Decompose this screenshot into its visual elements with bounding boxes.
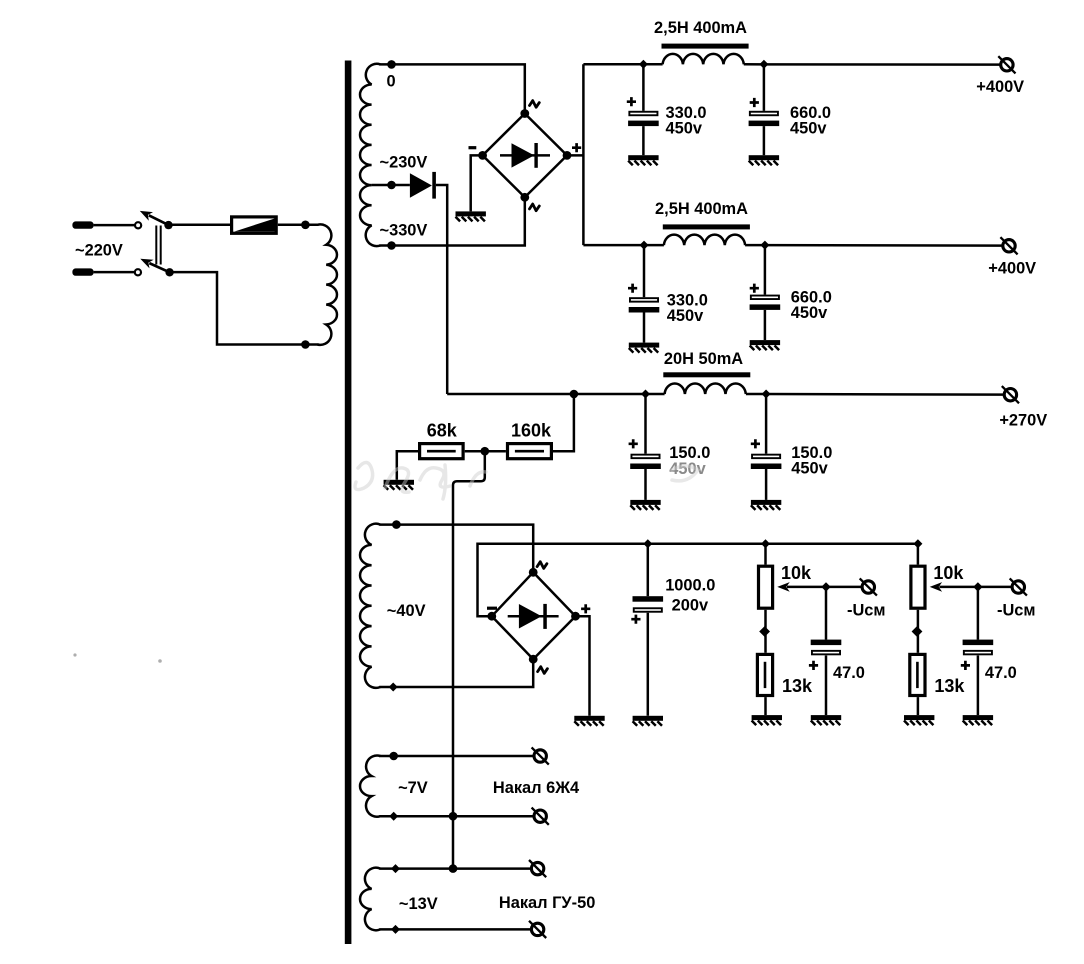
bridge VD2 ac mark bottom — [530, 204, 540, 211]
svg-text:68k: 68k — [427, 421, 458, 441]
junction node pot-13k 2 — [912, 626, 923, 637]
ground C7 ground — [633, 716, 663, 726]
ground bridge VD3 ground — [574, 716, 604, 726]
svg-text:~13V: ~13V — [399, 895, 438, 913]
resistor R1 68k body — [420, 444, 464, 459]
wire filter1 rail left — [583, 63, 662, 66]
ground R2 13k ground — [904, 715, 934, 725]
terminal terminal +400V b — [1000, 237, 1017, 254]
choke L2 winding — [664, 235, 745, 245]
junction bridge VD3 minus pin — [487, 612, 496, 621]
svg-text:47.0: 47.0 — [985, 664, 1017, 682]
capacitor C1 47.0 plates plates — [811, 640, 842, 646]
wire plug lower lead — [94, 271, 135, 274]
resistor R1 13k body — [757, 654, 772, 695]
junction filter1 output node — [759, 60, 768, 69]
bridge VD3 minus mark — [487, 607, 497, 610]
junction node pot 2 rail — [913, 539, 922, 548]
ground C1 ground — [628, 155, 658, 165]
capacitor C6 150.0 450v plates — [752, 455, 780, 459]
polarity plus C1 47 plus mark — [809, 661, 818, 670]
svg-text:160k: 160k — [511, 421, 552, 441]
svg-text:+400V: +400V — [988, 259, 1036, 277]
svg-text:450v: 450v — [791, 460, 828, 478]
transformer T1 heater winding ~7V — [360, 756, 380, 817]
svg-text:20H 50mA: 20H 50mA — [664, 350, 743, 368]
junction node pot-13k 1 — [759, 626, 770, 637]
resistor R2 13k body — [910, 654, 925, 695]
junction switch SA1 pivot upper — [164, 221, 172, 229]
polarity plus C1 plus mark — [627, 97, 636, 106]
junction node pot 1 rail — [761, 539, 770, 548]
svg-text:~220V: ~220V — [75, 242, 123, 260]
svg-text:47.0: 47.0 — [833, 664, 865, 682]
scan speck b — [158, 659, 162, 663]
bridge rectifier VD2 — [483, 114, 567, 198]
transformer T1 primary winding — [318, 224, 337, 344]
polarity plus C4 plus mark — [750, 284, 759, 293]
wire minus rail — [478, 544, 918, 617]
wire C7 bottom lead — [647, 613, 650, 716]
svg-text:13k: 13k — [782, 676, 813, 696]
watermark (faint) — [355, 462, 698, 499]
transformer T1 heater winding ~13V — [360, 868, 380, 931]
svg-text:450v: 450v — [790, 119, 827, 137]
terminal terminal -Ucm 1 — [860, 578, 877, 595]
junction bridge VD2 ac bottom pin — [520, 193, 529, 202]
capacitor C7 1000.0 200v plates — [633, 596, 664, 602]
wire C1 47 bottom lead — [825, 656, 828, 716]
wire C1 top lead — [642, 64, 645, 111]
wire C 2 47 top lead — [977, 587, 980, 640]
junction node winding 330 — [387, 241, 396, 250]
switch SA1 mechanical link — [156, 226, 160, 265]
wire C6 bottom lead — [765, 469, 768, 500]
svg-text:450v: 450v — [791, 304, 828, 322]
svg-text:450v: 450v — [667, 307, 704, 325]
wire C5 bottom lead — [644, 469, 647, 500]
wire C4 bottom lead — [764, 310, 767, 340]
wire R1 13k ground lead — [764, 697, 767, 715]
capacitor C3 330.0 450v plates — [630, 298, 658, 302]
ground C2 47 ground — [963, 715, 993, 725]
wire bridge minus to ground — [471, 155, 483, 211]
diode VD1 — [410, 173, 432, 197]
wire C5 top lead — [644, 394, 647, 454]
svg-text:450v: 450v — [666, 119, 703, 137]
svg-text:0: 0 — [387, 73, 396, 91]
wire 40V bottom wire — [379, 659, 533, 687]
svg-text:Накал ГУ-50: Накал ГУ-50 — [499, 894, 595, 912]
wire pot 2 bottom lead — [917, 610, 920, 653]
junction node 13V top — [391, 864, 400, 873]
capacitor C2 47.0 plates plates — [963, 640, 994, 646]
junction switch SA1 pivot lower — [165, 268, 173, 276]
terminal terminal heater 6Zh4 a — [532, 747, 549, 764]
wire net 330 bottom — [379, 197, 525, 245]
wire 7V top wire — [379, 755, 534, 758]
junction node C7 — [643, 539, 652, 548]
polarity plus C3 plus mark — [628, 284, 637, 293]
fuse FU1 — [232, 217, 277, 233]
polarity plus bridge VD2 plus mark — [572, 143, 581, 152]
ground bridge VD2 ground — [456, 211, 486, 221]
wire pot 1 bottom lead — [764, 610, 767, 653]
wire primary bottom return — [170, 272, 319, 344]
terminal terminal heater 6Zh4 b — [532, 808, 549, 825]
junction bridge VD3 ac bottom pin — [529, 655, 538, 664]
junction node 40V top — [392, 520, 401, 529]
wire filter3 rail right — [746, 393, 1005, 396]
junction node primary bottom — [301, 340, 310, 349]
svg-text:~40V: ~40V — [387, 602, 426, 620]
plug prong upper — [72, 221, 93, 228]
junction filter3 input node — [641, 390, 650, 399]
capacitor C4 660.0 450v plates — [751, 296, 779, 300]
wire plus rail riser — [582, 64, 585, 245]
wire diode output down — [436, 185, 447, 394]
junction node tap 230 — [387, 181, 396, 190]
wire C3 bottom lead — [643, 313, 646, 343]
wire R1 to R2 — [465, 450, 506, 453]
bridge VD2 minus mark — [469, 146, 477, 149]
wire C2 47 bottom lead — [977, 656, 980, 716]
junction bridge VD3 ac top pin — [529, 568, 538, 577]
terminal terminal -Ucm 2 — [1010, 578, 1027, 595]
junction bridge VD3 plus pin — [571, 612, 580, 621]
wire bridge VD3 plus to ground — [576, 616, 590, 716]
wire C6 top lead — [765, 394, 768, 454]
transformer T1 HV secondary winding 0-230-330 — [360, 64, 380, 246]
terminal terminal +400V a — [998, 56, 1015, 73]
choke L1 winding — [663, 54, 744, 64]
ground C5 ground — [630, 500, 660, 510]
junction node winding 0 — [387, 60, 396, 69]
wire 13V top wire — [379, 867, 531, 870]
junction filter2 input node — [640, 241, 649, 250]
wire C7 top lead — [647, 544, 650, 597]
ground C6 ground — [751, 500, 781, 510]
wire 13V bottom wire — [379, 928, 531, 931]
svg-text:200v: 200v — [672, 596, 709, 614]
wire R2 13k ground lead — [917, 697, 920, 715]
bridge rectifier VD3 — [492, 572, 576, 659]
transformer T1 core — [345, 61, 352, 945]
choke L3 winding — [665, 384, 746, 394]
junction node heater common b — [449, 864, 458, 873]
potentiometer RP2 wiper — [939, 586, 1011, 589]
junction node 160k riser — [570, 390, 579, 399]
wire C2 top lead — [763, 64, 766, 111]
polarity plus bridge VD3 plus mark — [581, 604, 590, 613]
switch SA1 contact lower — [135, 269, 141, 275]
wire C3 top lead — [643, 245, 646, 297]
wire bias tap to heater common — [453, 451, 485, 868]
wire C 1 47 top lead — [825, 587, 828, 640]
ground C2 ground — [749, 155, 779, 165]
capacitor C2 660.0 450v plates — [750, 112, 778, 116]
svg-text:-Uсм: -Uсм — [997, 601, 1036, 619]
polarity plus C2 47 plus mark — [961, 661, 970, 670]
svg-text:10k: 10k — [781, 563, 812, 583]
terminal terminal heater GU-50 b — [529, 921, 546, 938]
junction node wiper cap 2 — [973, 582, 982, 591]
junction node heater common a — [449, 812, 458, 821]
junction bridge VD2 plus pin — [563, 151, 572, 160]
polarity plus C2 plus mark — [750, 98, 759, 107]
wire tap 230 to diode — [372, 184, 410, 187]
svg-text:1000.0: 1000.0 — [665, 576, 715, 594]
ground C3 ground — [629, 343, 659, 353]
choke L2 core bar — [663, 224, 750, 229]
junction node primary top — [301, 221, 310, 230]
wire filter2 rail right — [745, 244, 1003, 247]
potentiometer RP2 body — [911, 566, 925, 608]
switch SA1 lever upper — [149, 215, 169, 225]
svg-text:+270V: +270V — [999, 411, 1047, 429]
svg-text:~330V: ~330V — [380, 221, 428, 239]
junction node 7V bottom — [389, 812, 398, 821]
junction bridge VD2 minus pin — [478, 151, 487, 160]
junction node wiper cap 1 — [821, 582, 830, 591]
wire fuse to primary — [278, 224, 319, 227]
choke L1 core bar — [662, 44, 749, 49]
polarity plus C6 plus mark — [751, 439, 760, 448]
wire pot 1 top lead — [764, 544, 767, 565]
wire net 0 top rail — [379, 64, 525, 113]
polarity plus C7 plus mark — [631, 615, 640, 624]
wire switch to fuse — [169, 224, 231, 227]
transformer T1 bias winding ~40V — [360, 524, 380, 688]
wire C1 bottom lead — [642, 126, 645, 155]
junction filter1 input node — [639, 60, 648, 69]
terminal terminal +270V — [1002, 386, 1019, 403]
ground C1 47 ground — [811, 715, 841, 725]
svg-text:-Uсм: -Uсм — [847, 601, 886, 619]
bridge VD2 ac mark top — [530, 101, 540, 108]
wire feed 270 rail — [447, 393, 664, 396]
ground R1 13k ground — [752, 715, 782, 725]
capacitor C5 150.0 450v plates — [631, 455, 659, 459]
wire pot 2 top lead — [917, 544, 920, 565]
terminal terminal heater GU-50 a — [529, 860, 546, 877]
bridge VD3 ac mark bottom — [538, 667, 548, 674]
choke L3 core bar — [663, 372, 750, 377]
svg-text:13k: 13k — [934, 676, 965, 696]
wire bridge plus output — [567, 154, 583, 157]
wire plug upper lead — [94, 224, 135, 227]
svg-text:Накал 6Ж4: Накал 6Ж4 — [493, 779, 580, 797]
wire 40V top wire — [379, 525, 533, 573]
junction filter3 output node — [762, 390, 771, 399]
svg-text:~7V: ~7V — [398, 779, 428, 797]
potentiometer RP1 body — [759, 566, 773, 608]
svg-text:10k: 10k — [933, 563, 964, 583]
wire R1 left lead — [397, 451, 418, 480]
wire filter1 rail right — [744, 63, 1001, 66]
junction node 40V bottom — [389, 683, 398, 692]
junction node 13V bottom — [391, 925, 400, 934]
junction node bias divider — [481, 447, 490, 456]
switch SA1 lever lower — [149, 263, 169, 272]
resistor R2 160k body — [508, 444, 552, 459]
bridge VD3 ac mark top — [537, 562, 547, 569]
ground R1 ground — [384, 480, 414, 490]
ground C4 ground — [750, 340, 780, 350]
polarity plus C5 plus mark — [629, 439, 638, 448]
wire C2 bottom lead — [763, 126, 766, 155]
wire 7V bottom wire — [379, 815, 534, 818]
svg-text:2,5H 400mA: 2,5H 400mA — [655, 200, 748, 218]
junction node 7V top — [389, 752, 398, 761]
svg-text:+400V: +400V — [976, 78, 1024, 96]
capacitor C1 330.0 450v plates — [629, 112, 657, 116]
potentiometer RP1 wiper — [787, 586, 862, 589]
junction bridge VD2 ac top pin — [520, 109, 529, 118]
svg-text:~230V: ~230V — [380, 153, 428, 171]
scan speck a — [73, 653, 76, 656]
junction filter2 output node — [760, 241, 769, 250]
wire R2 right riser — [553, 394, 574, 451]
svg-text:2,5H 400mA: 2,5H 400mA — [654, 19, 747, 37]
switch SA1 contact upper — [135, 222, 141, 228]
plug prong lower — [72, 268, 93, 275]
wire C4 top lead — [764, 245, 767, 295]
wire filter2 rail left — [583, 244, 664, 247]
